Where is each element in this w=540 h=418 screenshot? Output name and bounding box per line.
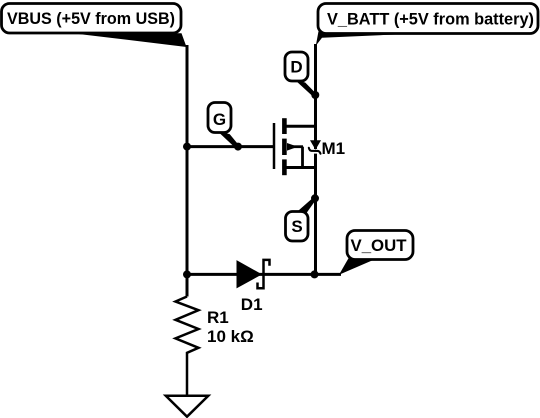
- node dot gate-left junction: [183, 143, 191, 151]
- wire VBUS left vertical: [186, 45, 189, 297]
- wire bottom horizontal to V_OUT: [187, 273, 341, 276]
- node V_OUT flag: [339, 231, 413, 275]
- node dot bottom-left junction: [183, 270, 191, 278]
- svg-text:D1: D1: [241, 295, 263, 314]
- transistor M1 (P-MOSFET): [274, 118, 345, 175]
- node dot drain junction: [311, 91, 319, 99]
- wire gate horizontal: [187, 145, 274, 148]
- node dot gate flag junction: [234, 143, 242, 151]
- node V_BATT flag: [316, 4, 538, 46]
- node S flag: [286, 197, 317, 241]
- svg-text:M1: M1: [322, 139, 346, 158]
- svg-text:V_BATT (+5V from battery): V_BATT (+5V from battery): [327, 10, 534, 29]
- node VBUS flag: [2, 4, 187, 48]
- svg-text:G: G: [213, 110, 226, 129]
- diode D1: [237, 260, 270, 314]
- node D flag: [285, 52, 317, 97]
- resistor R1: [176, 297, 254, 397]
- svg-text:VBUS (+5V from USB): VBUS (+5V from USB): [7, 9, 175, 28]
- node dot source junction: [311, 194, 319, 202]
- svg-text:V_OUT: V_OUT: [351, 236, 408, 255]
- wire V_BATT right vertical: [314, 44, 317, 149]
- svg-text:D: D: [290, 58, 302, 77]
- node G flag: [208, 103, 240, 149]
- svg-text:10 kΩ: 10 kΩ: [207, 327, 254, 346]
- svg-text:S: S: [291, 217, 302, 236]
- svg-text:R1: R1: [207, 308, 229, 327]
- node dot V_OUT junction: [311, 270, 319, 278]
- ground: [166, 396, 209, 417]
